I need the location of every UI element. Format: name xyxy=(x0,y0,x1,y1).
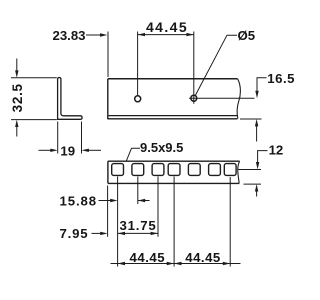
front view strip left edge xyxy=(107,79,109,119)
dim 19 left arrow tail xyxy=(39,149,52,151)
arrow 12 down xyxy=(256,162,259,169)
svg-text:19: 19 xyxy=(60,144,75,159)
arrow 31.75 left xyxy=(118,232,125,235)
dim 12 lower tail xyxy=(256,191,258,197)
svg-text:16.5: 16.5 xyxy=(267,71,295,86)
dim 19 right extension line xyxy=(81,122,83,154)
svg-text:44.45: 44.45 xyxy=(185,250,221,265)
arrow 31.75 right xyxy=(151,232,158,235)
arrow 19 right xyxy=(82,149,89,152)
arrow 16.5 down xyxy=(255,91,258,98)
svg-text:44.45: 44.45 xyxy=(146,19,188,35)
arrow 7.95 xyxy=(100,232,107,235)
arrow 15.88 right-point xyxy=(110,199,117,202)
extension line hole2 through hole xyxy=(193,32,195,104)
front view strip bottom edge xyxy=(108,118,238,120)
svg-text:12: 12 xyxy=(269,143,284,158)
top view rectangle bottom edge xyxy=(108,182,239,184)
dim 19 right arrow tail xyxy=(88,149,101,151)
strip bottom extension right xyxy=(240,118,262,120)
svg-text:15.88: 15.88 xyxy=(60,194,98,209)
top view rectangle top edge xyxy=(108,160,240,162)
extension line hole1 xyxy=(137,32,139,96)
left edge extension line xyxy=(107,186,109,237)
arrow 12 up xyxy=(255,184,258,191)
arrow 32.5 top xyxy=(15,70,18,77)
square hole 5 xyxy=(188,164,200,176)
hole2 centerline extension right xyxy=(189,97,255,99)
dim 16.5 lower tail xyxy=(256,126,258,142)
extension line hole3 xyxy=(157,177,159,237)
extension line hole4 xyxy=(173,177,175,267)
dim 32.5 bottom extension line xyxy=(11,119,57,121)
square hole 4 xyxy=(168,164,180,176)
arrow 44.45 bottom mid right-point xyxy=(167,262,174,265)
side view L-angle profile xyxy=(58,78,83,120)
dim 23.83 leader line xyxy=(86,34,101,36)
arrow 44.45 top left xyxy=(138,33,145,36)
square hole 3 xyxy=(152,164,164,176)
dim 16.5 elbow xyxy=(257,78,267,92)
dim 31.75 dimension line xyxy=(118,232,158,234)
arrow 44.45 bottom far left xyxy=(118,262,125,265)
Ø5 leader diagonal xyxy=(195,35,237,95)
top view break line xyxy=(238,161,240,183)
front view strip top edge xyxy=(108,78,238,80)
front view strip bend line xyxy=(109,115,237,117)
square centerline extension right xyxy=(238,169,262,171)
svg-text:9.5x9.5: 9.5x9.5 xyxy=(140,140,183,155)
square hole 6 xyxy=(209,164,221,176)
arrow 32.5 bottom xyxy=(15,120,18,127)
svg-text:7.95: 7.95 xyxy=(60,226,89,241)
svg-text:32.5: 32.5 xyxy=(10,83,25,112)
square hole 7 xyxy=(224,164,236,176)
dim 32.5 top extension line xyxy=(11,77,57,79)
dim 12 elbow xyxy=(258,151,268,163)
hole left (front view) xyxy=(135,96,141,102)
dim 44.45 top dimension line xyxy=(138,34,194,36)
arrow 16.5 up xyxy=(255,119,258,126)
dim 44.45 bottom dimension line xyxy=(111,263,241,265)
arrow 44.45 top right xyxy=(186,33,193,36)
front view break line xyxy=(237,79,240,119)
dim 19 left extension line xyxy=(57,122,59,154)
extension line hole2 short xyxy=(137,177,139,205)
arrow 44.45 bottom mid left-point xyxy=(174,262,181,265)
dim 23.83 left extension line xyxy=(107,32,109,78)
dim 32.5 top arrow tail xyxy=(16,59,18,72)
square hole 1 xyxy=(112,164,124,176)
arrow 44.45 bottom far right xyxy=(223,262,230,265)
extension line hole1 long xyxy=(117,177,119,267)
dim 32.5 bottom arrow tail xyxy=(16,127,18,137)
dim 15.88 right tail xyxy=(138,200,150,202)
rect bottom extension right xyxy=(244,183,262,185)
arrow 19 left xyxy=(50,149,57,152)
top view rectangle left edge xyxy=(107,161,109,183)
extension line hole7 xyxy=(229,177,231,267)
svg-text:23.83: 23.83 xyxy=(52,28,85,43)
dim 15.88 leader xyxy=(99,200,112,202)
arrow 23.83 xyxy=(100,33,107,36)
dim 7.95 leader xyxy=(92,232,102,234)
hole right Ø5 (front view) xyxy=(191,95,197,101)
arrow 15.88 left-point xyxy=(138,199,145,202)
svg-text:Ø5: Ø5 xyxy=(238,28,256,43)
svg-text:44.45: 44.45 xyxy=(130,250,166,265)
leader 9.5x9.5 xyxy=(126,148,140,161)
square hole 2 xyxy=(132,164,144,176)
svg-text:31.75: 31.75 xyxy=(119,218,156,233)
